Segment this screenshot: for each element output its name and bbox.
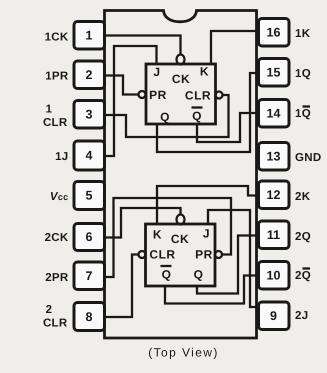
svg-text:3: 3 [86,108,93,122]
svg-text:2CK: 2CK [45,232,69,244]
svg-text:CLR: CLR [43,318,68,330]
pin 2 box [74,61,105,89]
U1 CK bubble [177,55,185,65]
wire 2CLR: pin8 to U2 CLR [105,255,139,318]
wire 1Q: U1 Q to pin15 [157,73,259,152]
svg-text:1Q: 1Q [295,108,311,120]
svg-text:1: 1 [86,29,93,43]
wire 2Qbar: U2 Qbar to pin10 [165,276,259,304]
wire 1J: pin4 to U1 J [105,46,157,156]
flip-flop U2 box (lower) [146,224,216,286]
svg-text:(Top View): (Top View) [148,346,218,360]
pin 16 box [259,19,290,47]
svg-text:2Q: 2Q [295,231,311,243]
svg-text:6: 6 [86,230,93,244]
svg-text:8: 8 [86,310,93,324]
svg-text:2: 2 [46,304,53,316]
wire 2K: pin12 to U2 K [157,186,259,224]
svg-text:GND: GND [295,152,321,164]
svg-text:1CK: 1CK [45,32,69,44]
svg-text:4: 4 [86,149,93,163]
pin 9 box [259,302,290,330]
flip-flop U1 box (upper) [146,64,216,124]
pin 4 box [74,141,105,170]
pin 5 box [74,182,105,210]
svg-text:J: J [153,65,160,79]
svg-text:CK: CK [171,232,189,246]
pin 14 box [259,100,290,128]
pin 11 box [259,221,290,249]
svg-text:10: 10 [267,269,281,283]
svg-text:1J: 1J [55,151,68,163]
svg-text:PR: PR [149,88,167,102]
svg-text:13: 13 [267,150,281,164]
svg-text:CLR: CLR [43,117,68,129]
svg-text:2Q: 2Q [295,270,311,282]
wire 1CLR: pin3 to U1 CLR [105,95,229,137]
U2 CLR bubble [139,251,146,258]
svg-text:PR: PR [195,248,213,262]
U2 CK bubble [177,215,185,225]
pin 12 box [259,181,290,209]
svg-text:Q: Q [192,109,202,123]
svg-text:CLR: CLR [185,89,211,103]
svg-text:J: J [203,227,210,241]
U2 PR bubble [215,251,222,258]
svg-text:CLR: CLR [149,248,175,262]
svg-text:1: 1 [46,104,53,116]
svg-text:7: 7 [86,269,93,283]
wire 1K: pin16 to U1 K [211,31,257,64]
svg-text:5: 5 [86,189,93,203]
svg-text:14: 14 [267,107,281,121]
svg-text:16: 16 [267,26,281,40]
svg-text:15: 15 [267,66,281,80]
svg-text:11: 11 [267,228,280,242]
wire 1Qbar: U1 Qbar to pin14 [197,113,259,142]
U1 PR bubble [139,91,146,98]
pin 8 box [74,303,105,331]
wire 1PR: pin2 to U1 PR [105,76,139,95]
pin 13 box [259,143,290,171]
pin 7 box [74,262,105,290]
svg-text:1Q: 1Q [295,68,311,80]
svg-text:Q: Q [160,110,170,124]
pin 1 box [74,22,105,50]
svg-text:12: 12 [267,188,281,202]
svg-text:1PR: 1PR [45,71,69,83]
svg-text:CK: CK [172,72,190,86]
wire 2J: pin9 to U2 J [208,210,259,307]
pin 15 box [259,59,290,87]
svg-text:Q: Q [194,268,204,282]
svg-text:2PR: 2PR [45,272,69,284]
wire 1CK: pin1 to U1 CK [105,36,181,55]
wire 2Q: U2 Q to pin11 [197,236,259,294]
wire 2PR: pin7 to U2 PR [105,198,232,277]
svg-text:K: K [153,228,162,242]
svg-text:Q: Q [162,268,172,282]
svg-text:Vcc: Vcc [50,191,69,203]
svg-text:2K: 2K [295,191,311,203]
svg-text:2J: 2J [295,310,308,322]
svg-text:1K: 1K [295,28,311,40]
pin 6 box [74,224,105,251]
pin 10 box [259,262,290,290]
U1 CLR bubble [216,92,223,99]
svg-text:2: 2 [86,68,93,82]
svg-text:9: 9 [270,309,277,323]
wire 2CK: pin6 to U2 CK [105,208,181,238]
svg-text:K: K [200,65,209,79]
pin 3 box [74,101,105,129]
IC package outline with notch (top view) [105,11,257,339]
